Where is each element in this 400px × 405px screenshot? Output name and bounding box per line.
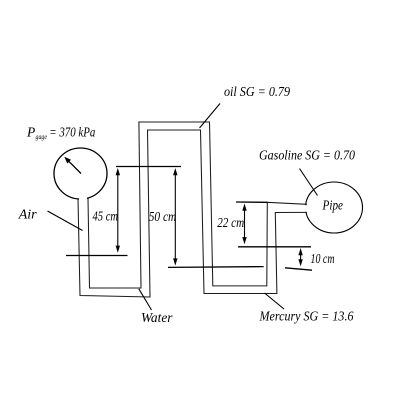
svg-text:P: P [26, 125, 35, 140]
svg-text:50 cm: 50 cm [149, 210, 177, 225]
svg-text:10 cm: 10 cm [311, 252, 335, 267]
svg-text:Air: Air [18, 208, 37, 223]
svg-text:22 cm: 22 cm [217, 216, 244, 231]
svg-text:Pipe: Pipe [322, 199, 343, 214]
svg-text:Mercury SG = 13.6: Mercury SG = 13.6 [259, 310, 354, 325]
svg-text:Gasoline SG = 0.70: Gasoline SG = 0.70 [259, 149, 355, 164]
svg-text:= 370 kPa: = 370 kPa [49, 125, 95, 140]
svg-text:Water: Water [141, 311, 173, 326]
svg-text:45 cm: 45 cm [93, 210, 119, 225]
svg-text:oil SG = 0.79: oil SG = 0.79 [224, 85, 290, 100]
svg-text:gage: gage [36, 132, 48, 141]
